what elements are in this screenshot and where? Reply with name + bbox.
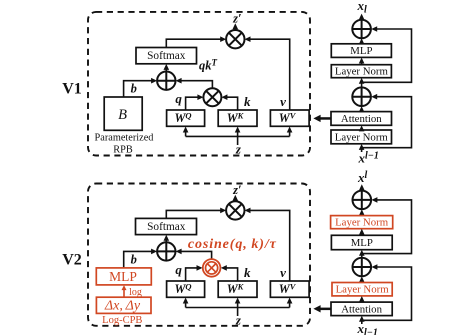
box W-Q (V2) xyxy=(167,281,205,297)
svg-text:Softmax: Softmax xyxy=(147,50,186,62)
box Softmax (V2) xyxy=(136,218,197,234)
svg-text:Log-CPB: Log-CPB xyxy=(102,315,142,326)
box Layer Norm lower (block1) xyxy=(331,130,392,144)
skip wire post-MLP-tap to add1 (block2) xyxy=(362,200,412,254)
wire cosine multiply to add node (V2) xyxy=(178,251,212,259)
add node bias (V1) xyxy=(157,72,175,90)
wire Attention to LayerNorm2 (block2) xyxy=(361,299,363,303)
wire multiply to z-prime (V1) xyxy=(234,27,236,30)
skip wire post-attention to add1 (block1) xyxy=(362,29,412,82)
svg-text:Layer Norm: Layer Norm xyxy=(335,66,389,78)
add node bias (V2) xyxy=(157,242,175,260)
add node 2 (block2) xyxy=(353,258,372,277)
svg-text:Softmax: Softmax xyxy=(147,221,186,233)
svg-text:k: k xyxy=(244,94,251,109)
svg-text:z: z xyxy=(235,142,242,157)
wire q to cosine multiply (V2) xyxy=(186,268,201,281)
wire add to softmax (V2) xyxy=(165,237,167,242)
box Layer Norm lower (block2, red) xyxy=(332,283,392,296)
multiply node scaled-cosine (V2, red double circle) xyxy=(203,259,221,277)
wire add1 to x_l (block1) xyxy=(361,17,363,20)
svg-text:z′: z′ xyxy=(232,12,241,26)
thick arrow Attention to V1 box xyxy=(313,115,330,122)
box Attention (block2) xyxy=(331,302,392,316)
box B parameterized bias (V1) xyxy=(104,97,142,130)
caption Parameterized RPB (V1) xyxy=(95,132,155,155)
wire B to add node (V1) xyxy=(124,81,155,97)
box W-Q (V1) xyxy=(167,110,205,126)
wire add2 to LayerNorm (block1) xyxy=(361,80,363,87)
dashed enclosure box V2 xyxy=(88,184,310,326)
add node 1 (block2) xyxy=(353,191,372,210)
box Layer Norm upper (block2, red) xyxy=(331,216,393,229)
svg-text:Δx, Δy: Δx, Δy xyxy=(104,298,141,313)
wire MLP to LayerNorm1 (block2) xyxy=(361,231,363,235)
multiply node attn-times-v (V1) xyxy=(226,30,244,48)
svg-text:b: b xyxy=(131,82,137,96)
box Softmax (V1) xyxy=(136,48,197,64)
wire LayerNorm2 to add2 (block2) xyxy=(361,279,363,283)
box delta-x delta-y (V2, red) xyxy=(96,297,151,313)
wire q to multiply (V1) xyxy=(186,97,202,110)
add node 1 (block1) xyxy=(352,20,371,39)
svg-text:k: k xyxy=(244,265,251,280)
wire MLP to add1 (block1) xyxy=(361,41,363,44)
wire z riser to W-K (V2) xyxy=(237,300,239,316)
wire x_l-1 input to LayerNorm2 (block1) xyxy=(361,146,363,152)
box MLP meta network (V2, red) xyxy=(96,268,151,285)
box MLP (block2) xyxy=(331,235,392,249)
wire v to multiply (V1) xyxy=(247,39,290,110)
svg-text:Parameterized: Parameterized xyxy=(95,132,155,143)
box W-V (V1) xyxy=(270,110,309,126)
box W-V (V2) xyxy=(270,281,309,297)
svg-text:q: q xyxy=(175,91,182,106)
svg-text:v: v xyxy=(280,94,286,109)
wire LayerNorm2 to Attention (block1) xyxy=(361,128,363,130)
thick arrow Attention to V2 box xyxy=(313,305,330,312)
wire input bus z (V1) xyxy=(186,135,290,137)
svg-text:b: b xyxy=(131,252,137,266)
svg-text:z: z xyxy=(235,312,242,327)
wire LayerNorm to MLP (block1) xyxy=(361,60,363,65)
box Attention (block1) xyxy=(331,112,392,126)
wire input bus z (V2) xyxy=(186,307,290,309)
svg-text:v: v xyxy=(280,265,286,280)
box W-K (V2) xyxy=(218,281,257,297)
box Layer Norm upper (block1) xyxy=(331,65,391,78)
svg-text:log: log xyxy=(129,287,142,298)
wire add1 to x^l (block2) xyxy=(361,188,363,191)
wire add to softmax (V1) xyxy=(165,66,167,71)
svg-text:MLP: MLP xyxy=(351,237,373,249)
wire add2 to MLP (block2) xyxy=(361,252,363,257)
svg-text:MLP: MLP xyxy=(350,45,372,57)
svg-text:Layer Norm: Layer Norm xyxy=(335,131,389,143)
add node 2 (block1) xyxy=(352,87,371,106)
svg-text:Layer Norm: Layer Norm xyxy=(336,284,390,296)
svg-text:MLP: MLP xyxy=(109,269,137,284)
svg-text:Attention: Attention xyxy=(341,113,382,125)
wire Attention to add2 (block1) xyxy=(361,109,363,112)
wire x_l-1 input to Attention (block2) xyxy=(361,318,363,324)
dashed enclosure box V1 xyxy=(88,12,310,156)
box W-K (V1) xyxy=(218,110,257,126)
svg-text:B: B xyxy=(118,107,127,123)
wire delta to MLP with log label (V2, red) xyxy=(123,288,125,298)
svg-text:q: q xyxy=(175,262,182,277)
wire LayerNorm1 to add1 (block2) xyxy=(361,212,363,216)
svg-text:Layer Norm: Layer Norm xyxy=(335,217,389,229)
box MLP (block1) xyxy=(331,44,391,58)
wire k to cosine multiply (V2) xyxy=(223,268,238,281)
svg-text:RPB: RPB xyxy=(113,144,133,155)
svg-text:V1: V1 xyxy=(62,81,82,98)
wire v to multiply (V2) xyxy=(247,210,290,281)
wire multiply to z-prime (V2) xyxy=(234,198,236,201)
svg-text:cosine(q, k)/τ: cosine(q, k)/τ xyxy=(188,237,277,252)
wire bus riser to W-V (V1) xyxy=(289,129,291,136)
wire qk multiply to add node (V1) xyxy=(178,81,213,89)
svg-text:Attention: Attention xyxy=(341,303,382,315)
multiply node q-times-k (V1) xyxy=(203,88,221,106)
wire k to multiply (V1) xyxy=(224,97,238,110)
wire MLP(b) to add node (V2) xyxy=(124,251,155,267)
wire bus riser to W-Q (V2) xyxy=(185,300,187,308)
skip wire input to add2 (block2) xyxy=(362,267,412,320)
wire bus riser to W-Q (V1) xyxy=(185,129,187,136)
svg-text:z′: z′ xyxy=(232,183,241,197)
wire bus riser to W-V (V2) xyxy=(289,300,291,308)
svg-text:V2: V2 xyxy=(62,252,82,269)
skip wire input to add2 (block1) xyxy=(362,97,412,148)
wire z riser to W-K (V1) xyxy=(237,129,239,145)
multiply node attn-times-v (V2) xyxy=(226,201,244,219)
wire softmax to multiply (V1) xyxy=(166,39,224,47)
wire softmax to multiply (V2) xyxy=(166,210,224,218)
